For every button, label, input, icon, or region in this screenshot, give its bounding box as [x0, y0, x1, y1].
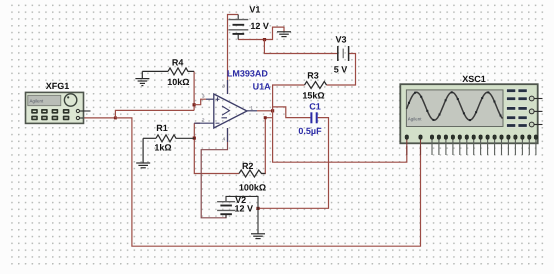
battery V1: [228, 15, 248, 40]
svg-text:R4: R4: [172, 57, 184, 67]
XSC1 bottom terminal pins: [405, 135, 538, 155]
svg-text:XSC1: XSC1: [462, 74, 486, 84]
wire V2 node down to ground: [257, 208, 259, 233]
wire op-amp minus supply routing to V2 bottom: [201, 128, 227, 218]
wire output node step to C1 left: [273, 107, 311, 118]
function generator XFG1: [26, 92, 84, 123]
battery V2: [217, 202, 235, 218]
wire junction down to V3: [264, 40, 338, 54]
XSC1 screen waveform: [407, 92, 503, 120]
junction output node D1: [271, 109, 274, 112]
ground G3 (right of V1): [277, 32, 291, 37]
svg-text:0.5µF: 0.5µF: [298, 126, 322, 136]
svg-text:R1: R1: [156, 123, 168, 133]
wire R4 right down to plus node: [193, 71, 195, 110]
ground G4 (below V2): [251, 234, 265, 239]
wire output node up to R3 left: [273, 85, 305, 111]
svg-text:C1: C1: [309, 101, 321, 111]
junction plus node: [193, 103, 196, 106]
XSC1 buttons panel: [507, 89, 528, 127]
svg-text:5 V: 5 V: [334, 64, 348, 74]
resistor R2: [239, 170, 265, 177]
svg-text:12 V: 12 V: [250, 21, 269, 31]
wire minus node to op-amp minus input: [194, 122, 200, 124]
wire node A up to plus-input rail: [115, 110, 194, 118]
svg-text:U1A: U1A: [253, 82, 272, 92]
wire V3 right side down to R3: [327, 54, 356, 86]
ground G1 (left of R4): [135, 71, 149, 85]
wire V1 minus terminal right to ground detour: [238, 27, 284, 39]
wire V1 plus terminal to op-amp VCC: [228, 15, 239, 95]
wire output node jog to R2 feedback: [262, 118, 273, 174]
svg-text:10kΩ: 10kΩ: [167, 77, 189, 87]
wire V2 plus terminal routing: [226, 196, 258, 208]
XSC1 right-side knob terminals: [529, 96, 542, 127]
resistor R1: [143, 135, 194, 142]
junction node A: [114, 116, 117, 119]
wire op-amp output to node D1: [257, 110, 273, 112]
wire output node down to scope channel A: [273, 111, 407, 162]
ground G2 (below R1): [136, 138, 150, 168]
battery V3: [338, 46, 349, 61]
wire XFG1 output to node A: [83, 117, 115, 119]
svg-text:15kΩ: 15kΩ: [302, 90, 324, 100]
svg-text:12 V: 12 V: [235, 204, 254, 214]
svg-text:R3: R3: [307, 70, 319, 80]
oscilloscope XSC1: [400, 84, 537, 143]
resistor R4: [142, 68, 194, 75]
wire minus node vertical: [194, 123, 239, 173]
XFG1 terminals: [76, 109, 90, 119]
wire plus node step to op-amp plus input: [194, 99, 206, 105]
svg-text:Agilent: Agilent: [408, 116, 423, 121]
junction V2 plus node: [256, 207, 259, 210]
svg-text:V1: V1: [249, 4, 260, 14]
wire C1 right to V2 plus node: [258, 118, 329, 209]
junction V1-V3 net: [263, 38, 266, 41]
op-amp U1A LM393AD: [194, 80, 257, 142]
capacitor C1: [311, 112, 316, 123]
junction feedback jog: [264, 116, 267, 119]
wire node A to bottom loop (scope channel B): [115, 118, 420, 246]
svg-text:V3: V3: [335, 35, 346, 45]
svg-text:100kΩ: 100kΩ: [239, 182, 266, 192]
junction minus node (R1): [193, 137, 196, 140]
resistor R3: [305, 82, 327, 89]
svg-text:LM393AD: LM393AD: [227, 69, 269, 79]
svg-text:R2: R2: [242, 161, 254, 171]
XFG1 buttons: [31, 109, 69, 120]
svg-text:1kΩ: 1kΩ: [154, 142, 171, 152]
svg-text:Agilent: Agilent: [30, 98, 45, 103]
svg-text:XFG1: XFG1: [46, 81, 70, 91]
